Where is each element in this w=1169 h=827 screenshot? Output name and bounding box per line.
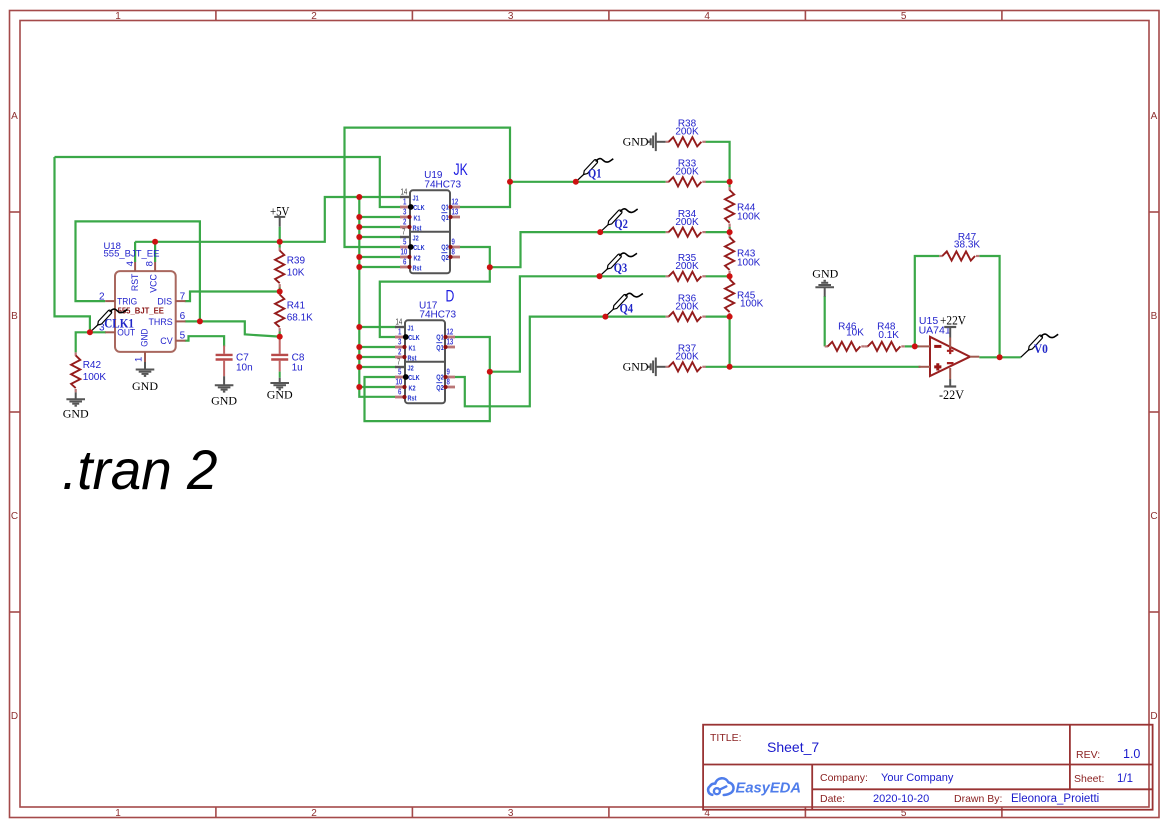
svg-text:1: 1 — [115, 808, 121, 819]
svg-text:CLK: CLK — [413, 204, 425, 212]
wire rail to U19 J2 — [359, 236, 401, 238]
svg-text:GND: GND — [140, 328, 150, 346]
probe Q1 — [573, 159, 614, 185]
node rail J2 U17 — [356, 364, 362, 370]
U19 pin 2 Rst1 — [400, 216, 422, 232]
svg-text:R41: R41 — [287, 301, 306, 312]
svg-text:D: D — [446, 288, 455, 306]
svg-text:12: 12 — [447, 326, 454, 336]
svg-text:C: C — [11, 511, 18, 522]
svg-text:74HC73: 74HC73 — [419, 310, 456, 321]
flip-flop U17 body — [405, 288, 457, 403]
svg-text:Q2: Q2 — [441, 244, 449, 252]
resistor R36 — [666, 293, 706, 321]
ground flag at R37 — [623, 358, 666, 377]
ground under R42 — [63, 392, 89, 420]
pin 3 OUT (left) — [99, 323, 135, 339]
U19 pin 1 CLK1 — [400, 196, 425, 212]
resistor R35 — [666, 253, 706, 281]
svg-text:555_BJT_EE: 555_BJT_EE — [104, 249, 160, 260]
U17 pin 9 Q2 — [436, 366, 455, 381]
U17 pin 12 Q1 — [436, 326, 455, 341]
svg-text:Q1: Q1 — [441, 204, 449, 212]
svg-text:13: 13 — [447, 336, 454, 346]
node THRS/R41/C8 junction — [277, 334, 283, 340]
resistor R33 — [666, 159, 706, 187]
svg-text:12: 12 — [452, 196, 459, 206]
node R36/R45 — [727, 314, 733, 320]
U17 pin 7 J2 — [395, 356, 414, 372]
svg-text:+22V: +22V — [940, 313, 967, 328]
node VCC pin8 junction — [152, 239, 158, 245]
node rail Rst1 U19 — [356, 224, 362, 230]
wire +5V rail to U19 J1 — [135, 197, 401, 242]
node R37 summing — [727, 364, 733, 370]
svg-text:GND: GND — [267, 388, 293, 402]
wire rail to U17 K2 — [359, 386, 396, 388]
pin base dots U19 — [407, 205, 452, 269]
svg-text:14: 14 — [401, 186, 408, 196]
probe Q3 — [597, 253, 638, 279]
svg-text:-22V: -22V — [939, 387, 965, 402]
svg-text:4: 4 — [125, 261, 136, 266]
resistor R47 — [939, 232, 980, 261]
svg-text:Q4: Q4 — [620, 301, 634, 315]
flip-flop U19 body — [410, 161, 468, 273]
wire Q1 row from node to R33 — [510, 181, 666, 183]
svg-text:GND: GND — [623, 135, 649, 149]
wire 555 pin8 stub riser — [154, 242, 156, 262]
svg-text:A: A — [1151, 111, 1158, 122]
svg-text:.tran 2: .tran 2 — [62, 438, 218, 501]
svg-text:VCC: VCC — [148, 274, 158, 293]
U17 pin 5 CLK2 — [395, 366, 420, 382]
svg-text:CLK: CLK — [408, 334, 420, 342]
U19 pin 13 Q1bar — [441, 206, 460, 222]
svg-text:CLK1: CLK1 — [104, 316, 134, 330]
svg-text:RST: RST — [130, 273, 140, 291]
svg-text:10n: 10n — [236, 362, 253, 373]
svg-text:B: B — [1151, 311, 1158, 322]
input polarity marks — [934, 345, 941, 348]
svg-text:D: D — [1150, 711, 1157, 722]
svg-text:2: 2 — [311, 11, 317, 22]
svg-text:3: 3 — [508, 808, 514, 819]
wire R47 to output riser — [979, 256, 999, 357]
U19 pin 10 K2 — [400, 246, 421, 262]
node THRS junction — [197, 318, 203, 324]
svg-text:J2: J2 — [413, 235, 419, 243]
wire rail to U19 Rst1 — [359, 226, 401, 228]
svg-text:5: 5 — [901, 11, 907, 22]
svg-text:0.1K: 0.1K — [878, 330, 899, 341]
EasyEDA logo — [708, 778, 801, 796]
svg-text:9: 9 — [447, 366, 450, 376]
wire inverting node feedback riser — [915, 256, 940, 346]
svg-text:100K: 100K — [740, 299, 764, 310]
svg-text:5: 5 — [403, 236, 406, 246]
node inverting input — [912, 343, 918, 349]
wire op-amp gnd to R46 — [824, 296, 826, 346]
svg-text:R39: R39 — [287, 256, 306, 267]
wire R33 out — [705, 181, 729, 183]
resistor R44 — [725, 187, 761, 227]
svg-text:Sheet_7: Sheet_7 — [767, 739, 819, 755]
wire rail to U19 K1 — [359, 216, 401, 218]
svg-text:REV:: REV: — [1076, 749, 1100, 761]
svg-text:Q2: Q2 — [614, 217, 628, 231]
node rail K1 U17 — [356, 344, 362, 350]
svg-text:100K: 100K — [83, 372, 107, 383]
svg-text:6: 6 — [398, 386, 401, 396]
power pins inside — [949, 338, 951, 380]
svg-text:200K: 200K — [675, 261, 699, 272]
probe Q2 — [597, 209, 638, 235]
svg-text:K1: K1 — [414, 215, 421, 223]
U17 pin 13 Q1bar — [436, 336, 455, 352]
probe CLK1 — [90, 309, 134, 332]
node Q3 branch — [487, 369, 493, 375]
wire rail to U17 K1 — [359, 346, 396, 348]
U19 pin 5 CLK2 — [400, 236, 425, 252]
resistor R39 — [275, 248, 305, 288]
svg-text:Date:: Date: — [820, 793, 845, 805]
node R34/R44/R43 — [727, 229, 733, 235]
power flag -22V — [939, 379, 965, 402]
svg-text:Sheet:: Sheet: — [1074, 773, 1104, 785]
pin 2 TRIG (left) — [99, 291, 137, 307]
wire Q2 node to Q2 row — [490, 232, 666, 267]
svg-text:TRIG: TRIG — [117, 297, 137, 308]
svg-text:Q2: Q2 — [441, 254, 449, 262]
U17 pin 8 Q2bar — [436, 376, 455, 392]
U17 pin 10 K2 — [395, 376, 416, 392]
op-amp U15 UA741 — [919, 315, 980, 379]
wire R39 to node — [279, 288, 281, 292]
U19 pin 14 J1 — [400, 186, 419, 202]
svg-text:A: A — [11, 111, 18, 122]
svg-text:Rst: Rst — [413, 265, 423, 273]
svg-text:D: D — [11, 711, 18, 722]
wire rail to U17 J2 — [359, 366, 396, 368]
wire rail to U19 K2 — [359, 256, 401, 258]
svg-text:GND: GND — [812, 266, 838, 280]
svg-text:Q1: Q1 — [436, 334, 444, 342]
probe V0 — [1021, 334, 1058, 357]
svg-text:K2: K2 — [409, 385, 416, 393]
svg-text:Rst: Rst — [413, 225, 423, 233]
node rail J1 U19 — [356, 194, 362, 200]
wire U17 Q1 to node — [455, 337, 490, 372]
svg-text:2020-10-20: 2020-10-20 — [873, 793, 929, 805]
svg-text:7: 7 — [180, 291, 186, 302]
probe Q4 — [602, 293, 643, 319]
wire rail to U17 Rst1 — [359, 356, 396, 358]
node rail K1 U19 — [356, 214, 362, 220]
svg-text:CV: CV — [160, 336, 173, 347]
svg-text:C: C — [1150, 511, 1157, 522]
pin 4 RST (top) — [125, 261, 140, 291]
svg-text:4: 4 — [704, 11, 710, 22]
wire TRIG to THRS loop — [76, 221, 200, 321]
wire U19 Q2 to node — [380, 247, 490, 337]
junction dots rails — [356, 179, 513, 390]
wire summing row to op-amp plus input — [730, 366, 921, 368]
U17 pin 6 Rst2 — [395, 386, 417, 402]
wire R36 out — [705, 316, 729, 318]
svg-text:DIS: DIS — [157, 297, 172, 308]
op-amp junction dots — [912, 343, 1003, 360]
svg-text:10K: 10K — [846, 327, 864, 338]
svg-text:100K: 100K — [737, 212, 761, 223]
svg-text:TITLE:: TITLE: — [710, 732, 742, 744]
power flag +22V — [940, 313, 967, 338]
wire +5V to R39 — [279, 242, 281, 248]
svg-text:GND: GND — [623, 360, 649, 374]
wire CV to C7 — [185, 336, 224, 346]
resistor R34 — [666, 209, 706, 237]
svg-text:2: 2 — [398, 346, 401, 356]
svg-text:V0: V0 — [1034, 342, 1048, 356]
ground flag at R38 — [623, 133, 666, 152]
wire rail to U19 Rst2 — [359, 266, 401, 268]
U19 pin 7 J2 — [400, 226, 419, 242]
U17 pin 3 K1 — [395, 336, 416, 352]
svg-text:74HC73: 74HC73 — [424, 179, 461, 190]
node output — [997, 354, 1003, 360]
svg-text:R42: R42 — [83, 360, 102, 371]
wire 555 OUT to U19 CLK1 (top run) — [55, 157, 402, 207]
svg-text:1u: 1u — [292, 362, 303, 373]
wire +5V rail vertical at U19/U17 left — [359, 197, 395, 397]
U19 pin 3 K1 — [400, 206, 421, 222]
svg-text:CLK: CLK — [408, 374, 420, 382]
node Q2 branch — [487, 264, 493, 270]
svg-text:8: 8 — [144, 261, 155, 266]
pin 5 CV (right) — [160, 331, 185, 348]
resistor R48 — [865, 321, 905, 351]
pin 8 VCC (top) — [144, 261, 158, 293]
svg-text:Rst: Rst — [408, 355, 418, 363]
svg-text:2: 2 — [311, 808, 317, 819]
node rail Rst2 U19 — [356, 264, 362, 270]
wire rail to U17 J1 — [359, 326, 396, 328]
wire DIS to R39/R41 node — [185, 292, 280, 302]
wire 555 OUT left rail — [55, 157, 90, 332]
wire OUT node to pin — [90, 331, 106, 333]
wire U19 Q1 riser and feedback to U19 CLK2 — [345, 128, 511, 247]
svg-text:200K: 200K — [675, 167, 699, 178]
ground under 555 pin1 — [132, 362, 158, 393]
wire op-amp output to probe — [979, 356, 1020, 358]
node +5V R39 junction — [277, 239, 283, 245]
svg-text:13: 13 — [452, 206, 459, 216]
svg-text:1: 1 — [133, 357, 144, 362]
svg-text:2: 2 — [403, 216, 406, 226]
svg-text:1/1: 1/1 — [1117, 773, 1133, 785]
svg-text:1: 1 — [398, 326, 401, 336]
svg-text:3: 3 — [508, 11, 514, 22]
U19 pin 8 Q2bar — [441, 246, 460, 262]
svg-text:3: 3 — [403, 206, 406, 216]
svg-text:100K: 100K — [737, 258, 761, 269]
svg-text:2: 2 — [99, 291, 105, 302]
svg-text:Rst: Rst — [408, 395, 418, 403]
svg-text:200K: 200K — [675, 217, 699, 228]
node DIS R39/R41 junction — [277, 289, 283, 295]
node Q1 row — [507, 179, 513, 185]
svg-text:6: 6 — [180, 311, 186, 322]
wire R43 leads — [728, 232, 730, 234]
wire Q3 node to Q3 row — [490, 276, 666, 371]
resistor R43 — [725, 234, 761, 274]
svg-text:1: 1 — [115, 11, 121, 22]
node rail K2 U17 — [356, 384, 362, 390]
svg-text:3: 3 — [398, 336, 401, 346]
node rail Rst1 U17 — [356, 354, 362, 360]
resistor R42 — [71, 352, 106, 392]
resistor R38 — [666, 119, 706, 147]
svg-text:1: 1 — [403, 196, 406, 206]
pin 1 GND (bottom) — [133, 328, 149, 362]
pin 6 THRS (right) — [149, 311, 186, 328]
node OUT junction — [87, 329, 93, 335]
svg-text:J2: J2 — [408, 365, 414, 373]
wire R38 to ladder top — [705, 142, 729, 182]
wire R37 out — [705, 366, 729, 368]
svg-text:J1: J1 — [408, 325, 414, 333]
svg-text:THRS: THRS — [149, 317, 173, 328]
svg-text:200K: 200K — [675, 302, 699, 313]
power flag +5V — [270, 203, 290, 242]
wire OUT node to R42 — [76, 332, 90, 352]
svg-text:5: 5 — [180, 331, 186, 342]
svg-text:Q2: Q2 — [436, 384, 444, 392]
U17 pin 1 CLK1 — [395, 326, 420, 342]
wire U17 Q2 to Q4 row — [455, 317, 666, 407]
svg-text:10: 10 — [401, 246, 408, 256]
svg-text:K2: K2 — [414, 255, 421, 263]
U17 pin 14 J1 — [395, 316, 414, 332]
wire R48 to inverting node — [905, 345, 919, 347]
node rail J2 U19 — [356, 234, 362, 240]
wire Q3 node feedback to U17 CLK2 — [365, 372, 490, 421]
svg-text:Q1: Q1 — [441, 214, 449, 222]
svg-text:Q3: Q3 — [614, 261, 628, 275]
svg-text:EasyEDA: EasyEDA — [736, 780, 802, 797]
node R33/R38/R44 — [727, 179, 733, 185]
555 timer U18 body — [104, 241, 176, 352]
svg-text:14: 14 — [396, 316, 403, 326]
svg-text:7: 7 — [397, 356, 400, 366]
wire R35 out — [705, 275, 729, 277]
svg-text:K1: K1 — [409, 345, 416, 353]
svg-text:B: B — [11, 311, 18, 322]
U19 pin 12 Q1 — [441, 196, 460, 211]
resistor R46 — [825, 321, 865, 351]
svg-text:GND: GND — [132, 379, 158, 393]
junction dots 555 area — [87, 239, 283, 340]
svg-text:CLK: CLK — [413, 244, 425, 252]
ground under C7 — [211, 376, 237, 407]
svg-text:7: 7 — [402, 226, 405, 236]
node rail J1 U17 — [356, 324, 362, 330]
wire R36 node down to R37 node — [728, 317, 730, 367]
svg-text:Q1: Q1 — [436, 344, 444, 352]
svg-text:200K: 200K — [675, 352, 699, 363]
svg-text:38.3K: 38.3K — [954, 240, 980, 251]
ground flag above R46 — [812, 266, 838, 296]
capacitor C8 — [271, 338, 305, 373]
pin 7 DIS (right) — [157, 291, 185, 307]
svg-text:Company:: Company: — [820, 772, 868, 784]
wire R44 leads — [728, 182, 730, 187]
svg-text:Eleonora_Proietti: Eleonora_Proietti — [1011, 793, 1099, 805]
svg-text:200K: 200K — [675, 127, 699, 138]
node rail K2 U19 — [356, 254, 362, 260]
node R35/R43/R45 — [727, 273, 733, 279]
svg-text:6: 6 — [403, 256, 406, 266]
svg-text:Drawn By:: Drawn By: — [954, 793, 1002, 805]
resistor R45 — [725, 276, 764, 316]
U17 pin 2 Rst1 — [395, 346, 417, 362]
capacitor C7 — [216, 346, 253, 377]
wire THRS to R41/C8 node (with diagonal) — [185, 321, 280, 336]
svg-text:JK: JK — [454, 161, 469, 179]
wire R41 to C8 node — [279, 332, 281, 337]
svg-text:GND: GND — [63, 407, 89, 421]
svg-text:10: 10 — [396, 376, 403, 386]
resistor R37 — [666, 344, 706, 372]
svg-text:68.1K: 68.1K — [287, 313, 313, 324]
svg-text:10K: 10K — [287, 268, 305, 279]
svg-text:Q1: Q1 — [588, 167, 602, 181]
wire R34 out — [705, 231, 729, 233]
svg-text:1.0: 1.0 — [1123, 747, 1140, 761]
pin base dots U17 — [402, 335, 447, 399]
svg-text:J1: J1 — [413, 195, 419, 203]
svg-text:GND: GND — [211, 394, 237, 408]
svg-text:5: 5 — [398, 366, 401, 376]
resistor R41 — [275, 292, 313, 332]
wire 555 pin4 stub riser — [134, 242, 136, 262]
U19 pin 9 Q2 — [441, 236, 460, 251]
svg-text:Q2: Q2 — [436, 374, 444, 382]
U19 pin 6 Rst2 — [400, 256, 422, 272]
svg-text:Your Company: Your Company — [881, 772, 954, 784]
svg-text:9: 9 — [452, 236, 455, 246]
ladder junction dots — [727, 179, 733, 370]
ground under C8 — [267, 372, 293, 402]
